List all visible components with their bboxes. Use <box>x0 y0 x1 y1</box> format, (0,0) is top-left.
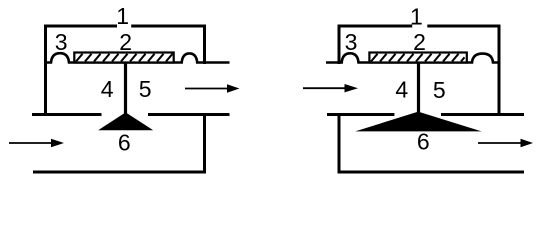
housing left wall <box>44 25 47 117</box>
lower chamber left wall <box>338 113 341 174</box>
outlet arrow <box>478 139 533 147</box>
diaphragm baseline with rolling convolutions (3) <box>44 53 230 62</box>
svg-text:2: 2 <box>119 29 132 55</box>
svg-text:3: 3 <box>55 29 68 55</box>
lower chamber bottom wall <box>338 171 525 174</box>
valve seat right flange <box>148 113 230 116</box>
svg-text:4: 4 <box>101 76 114 102</box>
diaphragm plate (hatched bar 2) <box>369 53 466 63</box>
svg-text:2: 2 <box>413 29 426 55</box>
lower chamber bottom wall <box>33 171 206 174</box>
svg-text:3: 3 <box>345 29 358 55</box>
svg-text:6: 6 <box>118 129 131 155</box>
svg-text:5: 5 <box>139 76 152 102</box>
housing left wall (upper) <box>338 25 341 65</box>
svg-text:5: 5 <box>433 77 446 103</box>
inlet arrow <box>303 84 358 92</box>
valve stem <box>124 63 127 115</box>
housing top cover (line 1, with gap for label) <box>44 25 206 28</box>
svg-text:1: 1 <box>116 3 129 29</box>
lower chamber right wall <box>203 113 206 174</box>
housing top cover (line 1, with gap for label) <box>338 25 501 28</box>
diaphragm baseline with rolling convolutions (3) <box>326 53 501 62</box>
diaphragm plate (hatched bar 2) <box>74 53 173 63</box>
valve seat right flange <box>441 113 524 116</box>
valve seat left flange <box>32 113 102 116</box>
valve poppet (6, filled) <box>98 112 153 130</box>
outlet arrow <box>185 84 240 92</box>
inlet arrow <box>9 139 64 147</box>
housing right wall <box>498 25 501 117</box>
valve seat left flange <box>327 113 394 116</box>
valve stem <box>417 63 420 114</box>
svg-text:6: 6 <box>417 128 430 154</box>
valve poppet (6, filled, wide open position) <box>355 112 481 132</box>
svg-text:4: 4 <box>395 76 408 102</box>
svg-text:1: 1 <box>410 3 423 29</box>
housing right wall (upper) <box>203 25 206 65</box>
